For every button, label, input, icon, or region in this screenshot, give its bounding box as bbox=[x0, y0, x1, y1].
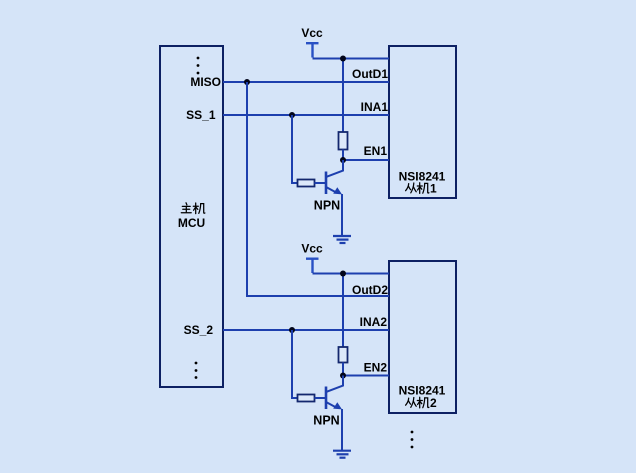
ground (Q1 emitter) bbox=[333, 236, 351, 243]
svg-text:NPN: NPN bbox=[313, 414, 339, 428]
wire EN2 to block bbox=[343, 375, 389, 377]
svg-text:OutD2: OutD2 bbox=[352, 283, 388, 297]
label 从机1 (drawn glyphs) bbox=[406, 183, 429, 194]
svg-text:EN1: EN1 bbox=[364, 144, 388, 158]
node SS_1 branch bbox=[289, 112, 295, 118]
wire EN1 to block bbox=[343, 159, 389, 161]
Vcc symbol 1 bbox=[306, 43, 319, 57]
svg-text:NSI8241: NSI8241 bbox=[399, 383, 446, 397]
wire MISO to OutD1 bbox=[223, 81, 389, 83]
svg-text:NSI8241: NSI8241 bbox=[399, 170, 446, 184]
node SS_2 branch bbox=[289, 327, 295, 333]
svg-text:MCU: MCU bbox=[178, 216, 205, 230]
Vcc symbol 2 bbox=[306, 259, 319, 273]
wire Vcc1 branch down to resistor R1 bbox=[342, 59, 344, 133]
svg-text:MISO: MISO bbox=[190, 75, 221, 89]
svg-text:INA2: INA2 bbox=[360, 315, 388, 329]
wire Vcc2 branch down to resistor R2 bbox=[342, 274, 344, 348]
svg-text:EN2: EN2 bbox=[364, 361, 388, 375]
NSI8241 block 1 bbox=[389, 46, 456, 198]
node MISO branch bbox=[244, 79, 250, 85]
node Vcc2 junction bbox=[340, 271, 346, 277]
transistor Q1 bbox=[326, 160, 343, 235]
wire SS_2 to INA2 bbox=[223, 329, 389, 331]
svg-text:Vcc: Vcc bbox=[301, 242, 323, 256]
resistor base R1b bbox=[298, 180, 315, 187]
wire R1 to EN1 node bbox=[342, 150, 344, 161]
node EN1 bbox=[340, 157, 346, 163]
wire SS_1 to INA1 bbox=[223, 114, 389, 116]
svg-text:NPN: NPN bbox=[314, 199, 340, 213]
svg-text:INA1: INA1 bbox=[361, 100, 389, 114]
wire base resistor to Q2 base bbox=[315, 397, 326, 399]
ground (Q2 emitter) bbox=[333, 451, 351, 458]
wire Vcc2 to block bbox=[313, 273, 390, 275]
MCU bottom ellipsis bbox=[195, 362, 198, 379]
wire SS_1 branch down to base resistor bbox=[292, 115, 298, 183]
svg-text:OutD1: OutD1 bbox=[352, 67, 388, 81]
ellipsis below block 2 bbox=[411, 431, 414, 449]
label 从机2 (drawn glyphs) bbox=[406, 397, 429, 408]
svg-text:SS_1: SS_1 bbox=[186, 108, 216, 122]
node EN2 bbox=[340, 373, 346, 379]
wire base resistor to Q1 base bbox=[315, 182, 326, 184]
svg-text:2: 2 bbox=[430, 396, 437, 410]
svg-text:Vcc: Vcc bbox=[301, 26, 323, 40]
wire MISO branch down to OutD2 bbox=[247, 82, 389, 296]
wire R2 to EN2 node bbox=[342, 363, 344, 376]
node Vcc1 junction bbox=[340, 56, 346, 62]
NSI8241 block 2 bbox=[389, 261, 456, 413]
svg-text:1: 1 bbox=[430, 182, 437, 196]
wire SS_2 branch down to base resistor bbox=[292, 330, 298, 398]
svg-text:SS_2: SS_2 bbox=[184, 323, 214, 337]
wire Vcc1 to block bbox=[313, 58, 390, 60]
transistor Q2 bbox=[326, 376, 343, 451]
MCU top ellipsis bbox=[197, 57, 200, 75]
label 主机 (drawn glyphs) bbox=[181, 203, 205, 214]
MCU block 主机 bbox=[160, 46, 223, 387]
resistor R1 bbox=[339, 132, 348, 150]
resistor base R2b bbox=[298, 395, 315, 402]
resistor R2 bbox=[339, 347, 348, 363]
